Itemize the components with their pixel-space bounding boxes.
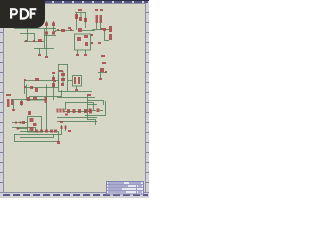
wire cluster J rail 3 (57, 117, 97, 119)
comp G in box (35, 88, 38, 92)
comp G rail2 (30, 86, 33, 89)
transistor H (100, 68, 104, 72)
resistor C right (84, 18, 87, 22)
stack I box 2 (33, 123, 37, 126)
label C left (68, 27, 71, 29)
wire cluster F stub (76, 86, 78, 89)
wire cluster G left drop (24, 80, 26, 94)
junction square cluster A (54, 31, 56, 33)
pins on A row y41 (25, 40, 27, 42)
wire cluster D diode drops (96, 23, 98, 30)
ground A stub 1 (38, 54, 41, 56)
wire cluster G rail 1 (24, 80, 59, 82)
labels D (95, 9, 98, 11)
comp B on wire (61, 29, 65, 32)
buzzer F bars (74, 77, 76, 84)
comp I rail (22, 121, 25, 124)
wire cluster K pins (85, 110, 88, 112)
comp C in box 1 (77, 37, 81, 41)
label C (78, 9, 82, 11)
PDF badge (0, 0, 50, 32)
wire E to F link (68, 80, 72, 82)
pin dot B (57, 29, 59, 31)
wire cluster J rail 2 (65, 102, 93, 104)
wire cluster L bus (12, 127, 35, 129)
wire cluster I right drop (46, 103, 48, 132)
wire cluster A ladder under badge (14, 28, 56, 30)
label E top (59, 70, 63, 72)
stack I box 1 (30, 118, 34, 122)
relay E stack (61, 73, 65, 76)
connector D bar 2 (109, 34, 112, 40)
top ruler band (0, 0, 149, 3)
comp on A row y41 (38, 39, 42, 42)
wire cluster H drop (100, 72, 102, 78)
pin H (105, 71, 107, 73)
wire cluster A verticals (44, 29, 46, 49)
comp I lower rail (17, 128, 20, 130)
comp G rail1 (35, 78, 39, 81)
wire cluster I box (28, 117, 42, 133)
label J (87, 94, 91, 96)
left ruler ticks (0, 12, 3, 183)
wire cluster A ground stubs (39, 48, 41, 54)
bar I right (45, 97, 48, 103)
label D buz (101, 55, 105, 57)
wire cluster J rail 4 (57, 121, 97, 123)
pins L top (61, 126, 63, 129)
wire cluster B feed (55, 30, 74, 32)
wire cluster G box (27, 85, 47, 101)
X mark I (27, 97, 30, 101)
wire cluster G right verticals (53, 75, 55, 100)
wire cluster C ground stubs (77, 50, 79, 54)
wire cluster J stem (61, 90, 63, 97)
right ruler ticks (146, 12, 149, 183)
wire cluster G bottom rail (29, 96, 62, 98)
ground I (12, 109, 15, 111)
X mark I box (28, 111, 31, 115)
comp D on rail (103, 28, 106, 31)
junction B (70, 29, 72, 31)
mark F below (75, 89, 78, 91)
wire cluster C box pins (90, 35, 93, 37)
label H (102, 62, 106, 64)
pin C right 2 (91, 42, 93, 44)
mark J 2 (60, 121, 63, 123)
comp C in box 3 (85, 42, 88, 46)
wire cluster D rail (92, 29, 109, 31)
comp I on rail (33, 97, 37, 100)
wire cluster C top rail (75, 12, 86, 14)
wire cluster G rail 2 (24, 87, 59, 89)
wire cluster D elbow (105, 30, 110, 41)
stack I box 3 (30, 127, 34, 131)
label I (6, 94, 11, 96)
bottom ruler dashes (3, 194, 148, 196)
wire cluster C verticals (76, 12, 78, 30)
ground H (99, 78, 102, 80)
wire cluster K outer (87, 95, 89, 120)
title block (107, 182, 144, 195)
pins I rails (15, 122, 17, 124)
wire cluster E box (58, 64, 60, 91)
comp K left (89, 109, 92, 113)
pot I bar 2 (11, 99, 13, 105)
transistor row J (67, 109, 70, 113)
comp row L (35, 130, 38, 133)
mark D below (98, 42, 101, 44)
top outer border line (0, 0, 149, 1)
ground A stub 2 (45, 56, 48, 58)
diode D left (96, 15, 99, 23)
FFF marks J (57, 109, 59, 113)
resistor C left (75, 14, 78, 19)
right inner border line (145, 3, 146, 192)
pin dot D (101, 28, 103, 30)
wire cluster J rail 1 (57, 97, 95, 99)
mark E left (54, 80, 56, 82)
comp C in box 2 (84, 35, 88, 38)
wire cluster E bottom rail (58, 91, 92, 93)
transistor C junction (78, 28, 82, 32)
mark J 1 (65, 114, 68, 116)
comps G right (52, 77, 55, 81)
wire cluster I left rails (12, 122, 27, 124)
right ruler band (146, 3, 149, 192)
label G right (52, 72, 55, 74)
diode D right (100, 15, 103, 23)
resistor pair A mid (45, 32, 48, 35)
comp I mid drop (20, 101, 23, 105)
wire cluster F buzzer box (73, 76, 82, 87)
sheet background (0, 0, 149, 198)
wire cluster A row y41 (24, 41, 44, 43)
pins G rails (24, 79, 26, 81)
mark L right low (57, 141, 60, 144)
wire cluster K lower (85, 101, 106, 116)
pot I bar 1 (7, 99, 10, 107)
wire cluster I top rail (12, 99, 47, 101)
wire cluster E inner stem (62, 71, 64, 86)
left inner border line (3, 3, 4, 192)
bottom inner border line (0, 192, 149, 193)
resistor C mid (79, 17, 82, 21)
resistor pair A top (45, 23, 48, 27)
comp K right (97, 109, 100, 113)
bottom ruler band (0, 192, 149, 198)
wire cluster I mid drop (21, 100, 23, 106)
connector D bar 1 (109, 26, 112, 32)
wire cluster C box (75, 34, 91, 50)
wire cluster H bar (98, 72, 106, 74)
mark L far right (68, 130, 71, 132)
top ruler dashes (4, 1, 148, 3)
top inner border line (0, 3, 149, 4)
wire cluster J comp row link (64, 111, 92, 113)
wire cluster I pot drop (13, 100, 15, 109)
pin C right 1 (91, 34, 93, 36)
wire cluster C junction to right (82, 30, 95, 32)
left ruler band (0, 3, 3, 192)
ground C stubs (76, 54, 79, 56)
wire cluster A bottom row (34, 48, 54, 50)
